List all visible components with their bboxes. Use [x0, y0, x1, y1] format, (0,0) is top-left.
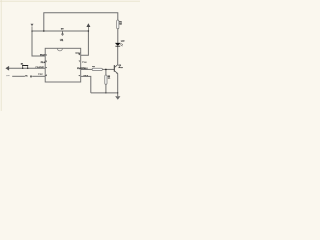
pin4 tiny component mark [29, 76, 31, 78]
resistor R1 body [117, 20, 119, 29]
button contact dots [22, 68, 23, 69]
ground symbol [115, 96, 120, 100]
wire emitter down [117, 73, 119, 96]
transistor Q1 collector [115, 65, 118, 68]
wire VDD to pin1 [32, 31, 45, 56]
svg-text:5: 5 [79, 75, 80, 77]
LED cathode bar [115, 45, 120, 47]
wire LED to collector [117, 46, 119, 65]
transistor Q1 emitter arrow [116, 72, 118, 74]
wire R3 top [105, 69, 107, 75]
wire VCC rail [32, 30, 88, 32]
button S1 legs [22, 66, 24, 68]
junction top loop / rail [43, 30, 45, 32]
power arrow up (right) [86, 23, 90, 27]
svg-text:6: 6 [79, 68, 80, 70]
wire right pin8 to rail [81, 31, 89, 55]
wire bottom rail [91, 92, 118, 94]
IC notch [57, 48, 62, 51]
svg-text:3: 3 [46, 67, 47, 69]
svg-text:P3.1/KEY: P3.1/KEY [36, 67, 45, 69]
svg-text:8: 8 [79, 54, 80, 56]
wire R2 to Q1 base [102, 68, 114, 70]
LED emission arrows [120, 43, 122, 44]
junction R3 / rail [105, 92, 106, 93]
wire top loop [44, 13, 118, 31]
wire pin5 down [81, 76, 91, 93]
transistor Q1 emitter [115, 71, 118, 73]
junction emitter / rail [117, 92, 118, 93]
svg-text:1: 1 [46, 55, 47, 57]
wire R3 bottom [105, 84, 107, 93]
svg-text:5V: 5V [61, 29, 64, 31]
junction rail right / arrow [88, 30, 90, 32]
wire pin4 right segment [32, 75, 45, 77]
svg-text:VDD: VDD [40, 54, 45, 56]
resistor R2 body [92, 68, 102, 70]
resistor R3 body [105, 75, 107, 84]
wire pin3 key net [9, 67, 45, 69]
transistor Q1 base bar [114, 65, 115, 72]
LED D1 triangle [115, 43, 121, 46]
wire pin4 left segment [12, 75, 25, 77]
svg-text:9013: 9013 [119, 67, 123, 69]
svg-text:2: 2 [46, 61, 47, 63]
button S1 cap [22, 65, 28, 66]
svg-text:U1: U1 [60, 38, 64, 42]
junction base/R3 [105, 69, 107, 71]
wire R1 to LED [117, 29, 119, 43]
wire 5V stub [62, 31, 64, 34]
IC U1 box [45, 48, 80, 82]
power arrow down (left) [31, 24, 34, 27]
junction rail left corner [31, 30, 32, 31]
svg-text:7: 7 [79, 61, 80, 63]
arrow left (KEY net) [5, 66, 9, 71]
wire pin6 to R2 [81, 68, 92, 70]
